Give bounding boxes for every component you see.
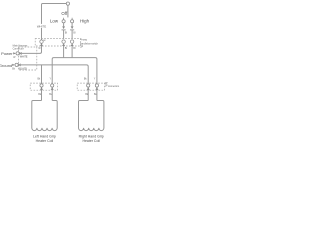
ground pin arrow xyxy=(12,64,15,66)
right heater coil element outline xyxy=(79,101,104,131)
svg-text:Left Hand Grip: Left Hand Grip xyxy=(33,134,56,138)
svg-text:W: W xyxy=(13,57,16,59)
ground bullet connector xyxy=(15,63,18,66)
left heater coil element outline xyxy=(32,101,57,131)
svg-text:Bl: Bl xyxy=(65,48,68,50)
svg-text:2P: 2P xyxy=(80,47,83,49)
left grip connector (dashed box) xyxy=(30,83,57,90)
bullet connector (white wire) xyxy=(40,40,43,46)
svg-text:Heater Coil: Heater Coil xyxy=(82,139,100,143)
svg-text:Bl: Bl xyxy=(73,33,76,35)
svg-text:Right Hand Grip: Right Hand Grip xyxy=(79,134,104,138)
svg-text:High: High xyxy=(80,19,90,24)
power connector crimp mark xyxy=(20,52,22,54)
svg-text:Y: Y xyxy=(94,79,96,81)
switch contact Low terminal xyxy=(62,18,65,23)
connector socket bar (Low) xyxy=(62,29,66,31)
bullet connector (right grip feed) xyxy=(95,84,98,90)
wire High to switch connector xyxy=(71,30,73,39)
svg-text:Bk: Bk xyxy=(84,79,88,81)
svg-text:Ground: Ground xyxy=(0,63,12,68)
feed bus to both grips xyxy=(52,58,97,101)
svg-text:Bl: Bl xyxy=(73,48,76,50)
wire Low contact down xyxy=(63,23,65,26)
power bullet connector xyxy=(16,52,19,55)
svg-text:handlebar switch: handlebar switch xyxy=(80,42,99,45)
svg-text:W: W xyxy=(43,40,46,42)
bullet connector (High wire) xyxy=(70,40,73,46)
svg-text:4-way: 4-way xyxy=(80,38,87,41)
svg-text:Bl: Bl xyxy=(65,33,68,35)
svg-text:WHITE: WHITE xyxy=(37,24,46,28)
handlebar switch connector (dashed box) xyxy=(35,39,80,46)
wire High drop to feed bus xyxy=(71,46,73,58)
right grip connector (dashed box) xyxy=(77,83,104,90)
svg-text:W: W xyxy=(38,48,41,50)
ground branch to left grip xyxy=(41,65,43,101)
connector pin arrow (Low) xyxy=(62,26,65,29)
svg-text:connectors: connectors xyxy=(108,85,120,88)
svg-text:Connector: Connector xyxy=(13,48,24,51)
connector pin arrow (High) xyxy=(71,26,74,29)
switch SW1 pivot xyxy=(66,2,69,5)
ground connector crimp mark xyxy=(19,64,21,66)
ground bus wire xyxy=(18,65,88,101)
bullet connector (Low wire) xyxy=(62,40,65,46)
svg-text:BLACK: BLACK xyxy=(19,67,27,70)
wire white/power: harness to switch common xyxy=(19,4,66,54)
switch contact High terminal xyxy=(71,18,74,23)
svg-text:WHITE: WHITE xyxy=(20,56,28,59)
svg-text:Bk: Bk xyxy=(38,79,42,81)
power pin arrow xyxy=(13,52,16,54)
wire Low to switch connector xyxy=(63,30,65,39)
svg-text:Power: Power xyxy=(1,51,13,56)
wire Low drop to feed bus xyxy=(63,46,65,58)
svg-text:Heater Coil: Heater Coil xyxy=(36,139,54,143)
wire High contact down xyxy=(71,23,73,26)
switch SW1 lever (Off position) xyxy=(67,5,69,17)
label WHITE on switch feed wire xyxy=(36,24,48,29)
svg-text:Low: Low xyxy=(50,19,59,24)
bullet connector (left grip feed) xyxy=(51,84,54,90)
svg-text:Y: Y xyxy=(49,79,51,81)
svg-text:Off: Off xyxy=(61,11,68,16)
bullet connector (right grip ground) xyxy=(87,84,90,90)
svg-text:2P: 2P xyxy=(105,83,108,85)
bullet connector (left grip ground) xyxy=(40,84,43,90)
svg-text:Bk: Bk xyxy=(12,69,16,71)
main harness connector (dashed box) xyxy=(19,47,37,70)
connector socket bar (High) xyxy=(70,29,74,31)
